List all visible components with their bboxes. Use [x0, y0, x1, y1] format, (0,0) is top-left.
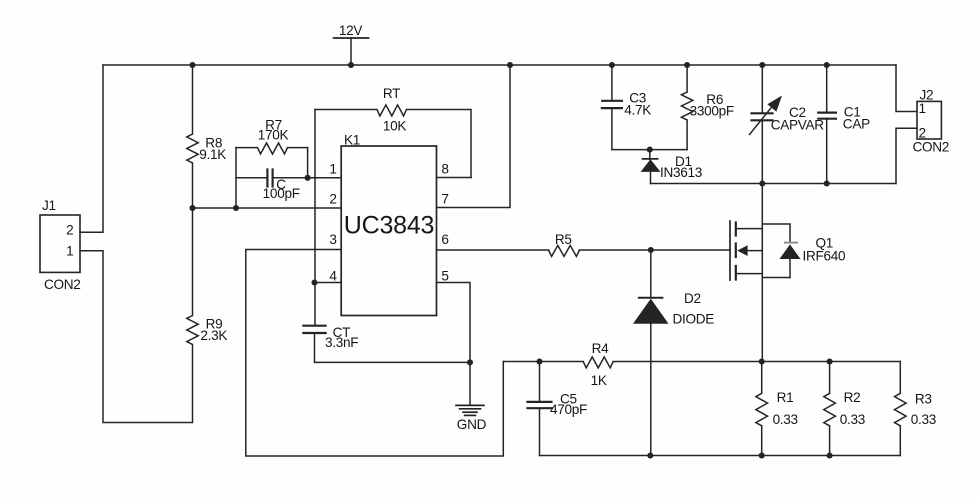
svg-text:1: 1 [919, 101, 926, 116]
svg-text:0.33: 0.33 [840, 412, 865, 427]
svg-text:CON2: CON2 [44, 277, 81, 292]
svg-text:D2: D2 [684, 291, 701, 306]
svg-text:2.3K: 2.3K [200, 328, 227, 343]
svg-text:CAP: CAP [843, 116, 870, 131]
svg-text:1: 1 [329, 162, 336, 177]
svg-text:UC3843: UC3843 [344, 212, 435, 240]
svg-text:10K: 10K [383, 119, 407, 134]
svg-text:R4: R4 [592, 341, 610, 356]
svg-text:8: 8 [441, 162, 448, 177]
svg-text:DIODE: DIODE [673, 312, 715, 327]
svg-text:9.1K: 9.1K [199, 147, 226, 162]
svg-text:R2: R2 [844, 390, 861, 405]
svg-text:5: 5 [441, 269, 448, 284]
svg-text:IRF640: IRF640 [803, 249, 847, 264]
svg-text:100pF: 100pF [263, 186, 300, 201]
svg-text:2: 2 [919, 126, 926, 141]
svg-text:CON2: CON2 [913, 140, 950, 155]
svg-text:4: 4 [329, 269, 337, 284]
svg-text:K1: K1 [344, 132, 360, 147]
svg-text:3: 3 [329, 232, 336, 247]
svg-text:3.3nF: 3.3nF [325, 335, 358, 350]
svg-text:0.33: 0.33 [911, 412, 936, 427]
svg-text:IN3613: IN3613 [660, 165, 702, 180]
svg-text:2: 2 [329, 192, 336, 207]
svg-text:1: 1 [66, 244, 73, 259]
svg-text:R3: R3 [915, 391, 932, 406]
svg-text:6: 6 [441, 232, 448, 247]
svg-text:GND: GND [457, 417, 487, 432]
svg-text:CAPVAR: CAPVAR [771, 118, 825, 133]
svg-text:7: 7 [441, 192, 448, 207]
svg-text:470pF: 470pF [550, 402, 587, 417]
svg-text:1K: 1K [591, 373, 607, 388]
svg-text:R1: R1 [777, 390, 794, 405]
svg-text:4.7K: 4.7K [624, 102, 651, 117]
svg-text:3300pF: 3300pF [690, 103, 734, 118]
svg-text:170K: 170K [258, 128, 289, 143]
svg-text:J1: J1 [42, 198, 56, 213]
svg-text:2: 2 [66, 223, 73, 238]
svg-text:R5: R5 [555, 232, 572, 247]
svg-text:RT: RT [383, 86, 400, 101]
svg-text:0.33: 0.33 [773, 412, 798, 427]
svg-text:12V: 12V [339, 23, 363, 38]
